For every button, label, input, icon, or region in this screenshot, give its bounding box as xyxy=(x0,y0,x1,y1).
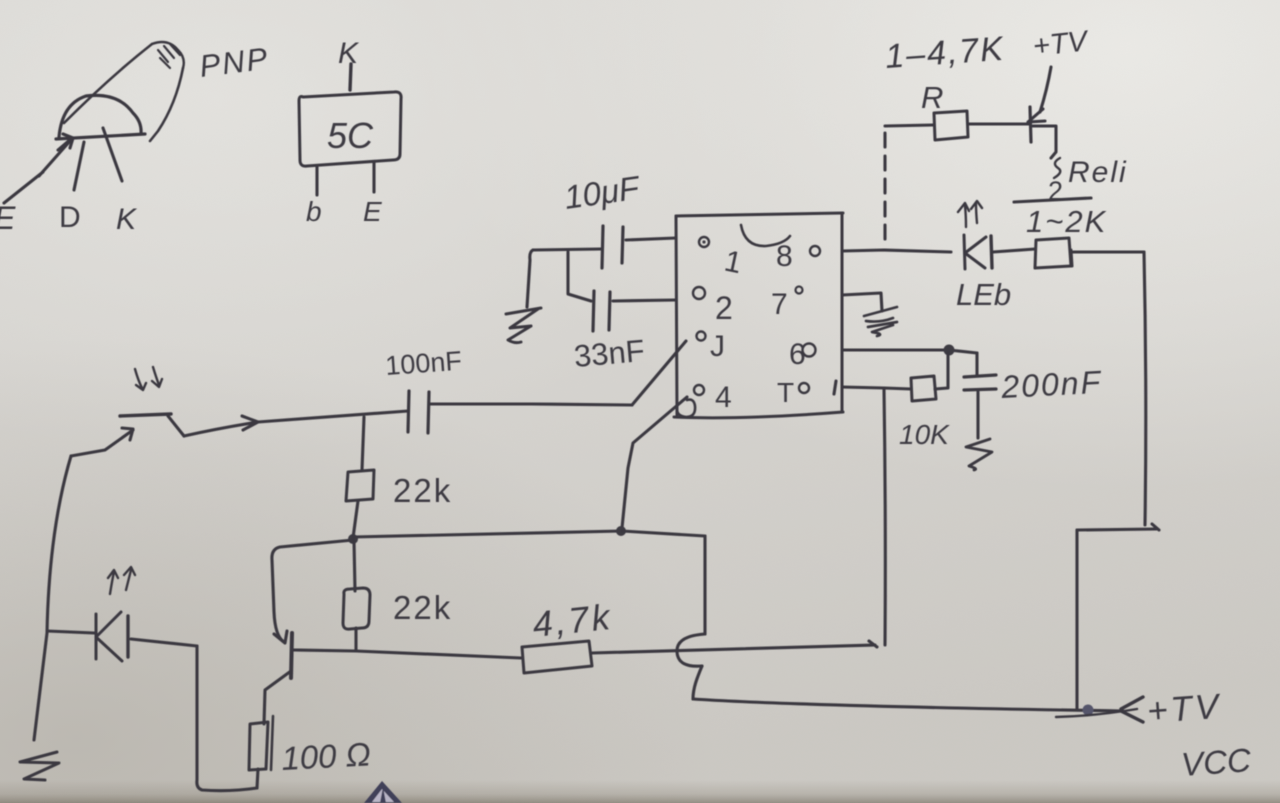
IC pin 6 label xyxy=(789,338,806,371)
wire 10uF to IC pin1 xyxy=(626,238,676,240)
svg-text:200nF: 200nF xyxy=(999,364,1103,405)
resistor R box xyxy=(934,111,968,140)
label 2 over fraction xyxy=(1048,176,1063,206)
resistor 22k lower lead top xyxy=(354,541,355,591)
label PNP xyxy=(198,41,271,84)
svg-text:22k: 22k xyxy=(393,472,452,509)
IC pin 3 circle xyxy=(697,332,706,341)
right loop wires xyxy=(1077,252,1159,710)
svg-text:7: 7 xyxy=(771,288,788,321)
ground pin7 xyxy=(864,307,897,336)
pin5 vertical rail down to 4,7k row xyxy=(884,389,885,645)
resistor 10k box xyxy=(911,376,936,401)
phototransistor collector lead xyxy=(168,416,184,436)
wire 4,7k to pin5 rail xyxy=(592,641,877,653)
label K (sketch) xyxy=(116,203,138,236)
IC pin 7 label xyxy=(771,288,788,321)
wire pin4 diagonal xyxy=(622,397,687,528)
wire resistor right to loop xyxy=(1073,250,1144,253)
wire mid horizontal junction to pin4 node xyxy=(353,531,622,537)
IC pin 4 label xyxy=(715,381,732,414)
wire diode to relay xyxy=(1033,126,1056,158)
resistor 22k lower lead bottom xyxy=(354,628,357,651)
photodiode wire right xyxy=(131,639,197,646)
phototransistor emitter arrow and left wire xyxy=(71,428,133,456)
svg-text:1~2K: 1~2K xyxy=(1026,204,1107,239)
svg-text:4,7k: 4,7k xyxy=(531,596,615,645)
label 200nF xyxy=(999,364,1103,405)
svg-text:22k: 22k xyxy=(393,589,452,626)
resistor 22k upper box xyxy=(346,470,374,501)
pinout box 5C xyxy=(299,92,401,166)
IC pin 8 circle xyxy=(810,246,820,256)
IC pin 2 circle xyxy=(693,287,705,299)
wire T to 33nF xyxy=(568,252,591,301)
label 100ohm xyxy=(280,735,371,777)
blue arrow mark bottom xyxy=(364,781,402,803)
label 22k upper xyxy=(393,472,452,509)
svg-text:+TV: +TV xyxy=(1146,687,1223,731)
wire IC pin5 to vertical rail xyxy=(834,381,884,394)
wire IC pin6 right xyxy=(842,350,977,353)
label 10K xyxy=(899,419,950,450)
wire junction to 10k xyxy=(935,353,948,389)
resistor 1~2K box xyxy=(1035,238,1072,268)
svg-text:E: E xyxy=(363,196,382,227)
resistor 4,7k box xyxy=(522,641,592,673)
junction dot B xyxy=(616,526,626,536)
photodiode left wire xyxy=(47,631,94,633)
IC pin 2 label xyxy=(715,290,733,326)
svg-text:33nF: 33nF xyxy=(573,333,646,374)
diode to +TV xyxy=(1028,67,1051,142)
capacitor 100nF xyxy=(408,391,429,433)
svg-text:10K: 10K xyxy=(899,419,950,450)
junction dot C xyxy=(1083,705,1094,716)
svg-text:K: K xyxy=(116,203,138,236)
LED symbol xyxy=(964,235,992,269)
svg-text:8: 8 xyxy=(776,240,793,273)
pinout box bottom pin E xyxy=(363,162,382,227)
svg-text:2: 2 xyxy=(715,290,733,326)
IC pin 5 circle xyxy=(799,383,809,393)
IC pin 6 circle xyxy=(803,344,816,357)
svg-text:100nF: 100nF xyxy=(384,346,462,381)
wire LED to resistor xyxy=(993,249,1035,252)
wire R to diode xyxy=(968,122,1029,125)
label +TV top xyxy=(1031,25,1091,63)
label 1-4,7K xyxy=(884,30,1006,76)
resistor 22k lower box xyxy=(343,588,370,629)
svg-text:D: D xyxy=(59,201,81,234)
svg-text:Reli: Reli xyxy=(1068,156,1128,189)
IC pin 7 circle xyxy=(796,287,803,294)
label 10uF xyxy=(562,169,643,216)
ground top middle xyxy=(506,308,541,343)
IC pin 5 label T xyxy=(777,377,794,408)
label 100nF xyxy=(384,346,462,381)
wire junction to transistor base xyxy=(272,540,353,643)
wire R left xyxy=(885,125,933,126)
svg-text:5C: 5C xyxy=(327,115,374,156)
label B (sketch) xyxy=(59,201,81,234)
svg-text:R: R xyxy=(921,80,943,115)
ground bottom left xyxy=(20,752,59,780)
wire 10uF left xyxy=(533,249,601,250)
wire phototransistor to 100nF with arrow xyxy=(184,411,408,436)
wire pin3 diagonal xyxy=(632,341,686,405)
+TV VCC arrow xyxy=(1056,697,1143,722)
LED light arrows xyxy=(958,201,982,227)
resistor 22k upper lead xyxy=(362,417,364,470)
wire 33nF to IC pin2 xyxy=(613,300,676,301)
bottom rail wire xyxy=(693,699,1123,711)
IC pin 8 label xyxy=(776,240,793,273)
capacitor 33nF plates xyxy=(593,291,610,331)
junction dot D xyxy=(944,345,955,356)
capacitor 10uF plates xyxy=(602,226,623,268)
wire 10k left to pin5 rail xyxy=(884,388,911,389)
transistor sketch leg K xyxy=(103,128,122,181)
fraction line xyxy=(1014,198,1091,202)
svg-text:J: J xyxy=(710,330,725,363)
label 4,7k xyxy=(531,596,615,645)
wire 100nF to pin3 node xyxy=(429,404,632,405)
label +TV bottom xyxy=(1146,687,1223,731)
junction dot A xyxy=(348,534,358,544)
capacitor 200nF xyxy=(964,353,996,438)
label 22k lower xyxy=(393,589,452,626)
IC pin 4 circle xyxy=(694,385,704,395)
transistor Q1 emitter to 100ohm xyxy=(264,671,291,724)
resistor 100ohm box xyxy=(249,716,273,770)
dashed wire R to pin8 xyxy=(883,133,886,248)
svg-text:LEb: LEb xyxy=(956,277,1011,312)
wire IC pin7 to ground xyxy=(842,293,882,311)
IC pin 1 circle xyxy=(699,237,709,247)
photodiode light arrows xyxy=(108,567,135,594)
IC pin 3 label xyxy=(710,330,725,363)
label LED xyxy=(956,277,1011,312)
transistor sketch leg E xyxy=(4,134,73,203)
svg-text:+TV: +TV xyxy=(1031,25,1091,63)
bottom left return wire xyxy=(197,646,257,791)
wire 22k to junction xyxy=(353,501,358,538)
transistor Q1 collector wire xyxy=(293,650,521,658)
phototransistor bar xyxy=(120,414,171,416)
IC pin 1 label xyxy=(722,245,745,281)
svg-text:T: T xyxy=(777,377,794,408)
svg-text:VCC: VCC xyxy=(1180,741,1253,783)
svg-text:4: 4 xyxy=(715,381,732,414)
photodiode symbol xyxy=(96,612,128,661)
phototransistor light arrows xyxy=(135,367,162,390)
svg-text:E: E xyxy=(0,200,16,236)
label Reli xyxy=(1068,156,1128,189)
pinout box bottom pin b xyxy=(306,167,322,227)
svg-text:K: K xyxy=(338,37,360,70)
label 33nF xyxy=(573,333,646,374)
IC U1 box xyxy=(674,213,843,418)
wire left vertical down to ground xyxy=(34,456,71,740)
ground 200nF xyxy=(966,439,992,470)
label 1~2K xyxy=(1026,204,1107,239)
wire IC pin8 right xyxy=(842,250,951,252)
wire to top ground xyxy=(527,250,533,307)
transistor Q1 base bar xyxy=(291,633,292,678)
resistor 100ohm bottom lead xyxy=(257,769,258,788)
pinout box top pin K xyxy=(338,37,360,90)
svg-text:100 Ω: 100 Ω xyxy=(280,735,371,777)
transistor sketch leg B xyxy=(74,142,84,190)
wire junction B to hop and bottom rail xyxy=(622,531,705,699)
svg-text:b: b xyxy=(306,196,322,227)
relay pin squiggle xyxy=(1054,158,1060,178)
label E (sketch left) xyxy=(0,200,16,236)
label VCC xyxy=(1180,741,1253,783)
label R xyxy=(921,80,943,115)
transistor package sketch body xyxy=(56,42,184,141)
